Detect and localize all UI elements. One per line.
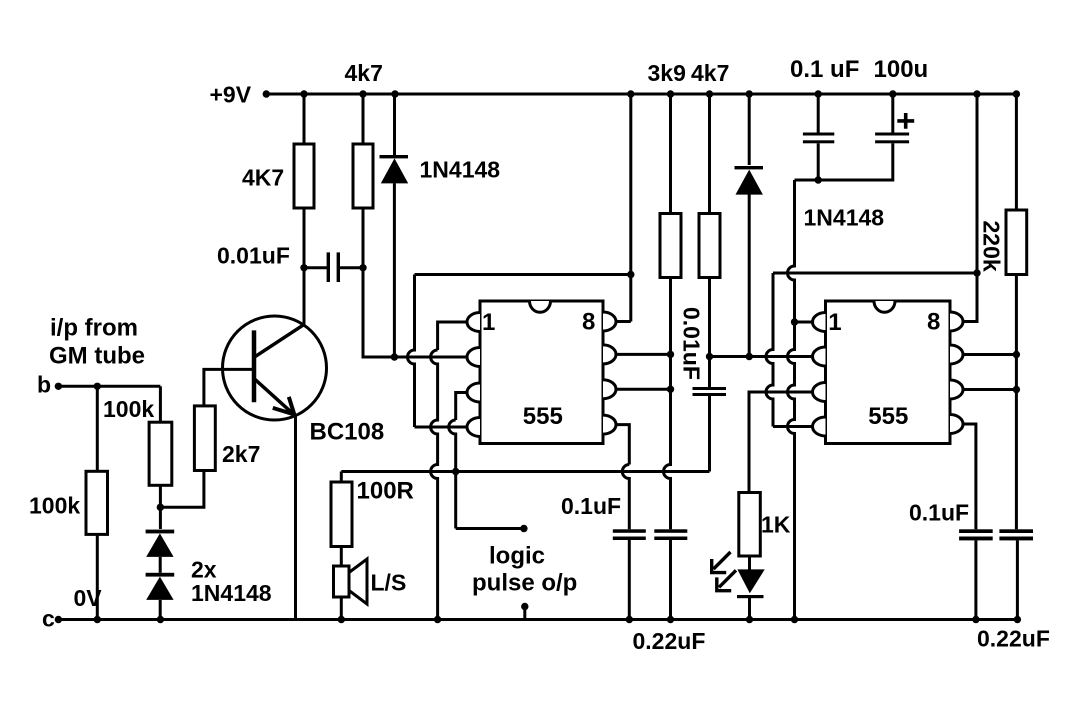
op-amp U1 pin5 bubble — [603, 415, 616, 434]
LED D5 triangle — [737, 569, 764, 593]
svg-text:2x: 2x — [191, 557, 217, 583]
resistor 1K — [739, 493, 761, 557]
diode D1 1N4148 lead from rail — [393, 94, 396, 155]
node rail0V junction x794 — [791, 616, 798, 623]
capacitor 100u C8 lead from rail — [891, 94, 894, 133]
wire U1 pin4 reset horizontal — [415, 426, 469, 429]
capacitor 0.01uF C1 right wire — [340, 266, 363, 269]
svg-text:555: 555 — [523, 403, 563, 430]
svg-text:0.1uF: 0.1uF — [909, 500, 969, 526]
svg-text:1N4148: 1N4148 — [804, 205, 885, 231]
node logic pulse o/p terminal — [520, 525, 527, 532]
op-amp U2 555 body — [826, 301, 951, 444]
node +9V terminal dot — [263, 90, 270, 97]
op-amp U2 pin2 bubble — [813, 347, 826, 366]
capacitor 0.01uF C1 left plate — [327, 252, 330, 282]
op-amp U2 pin3 bubble — [813, 383, 826, 402]
LED D5 cathode bar — [737, 595, 764, 598]
node rail junction x818 — [815, 90, 822, 97]
wire 100R to speaker — [340, 547, 343, 567]
node junction pin6/3k9 — [667, 386, 674, 393]
diode D4 1N4148 lower triangle — [146, 577, 173, 600]
diode D4 1N4148 lower cathode bar — [146, 573, 175, 577]
wire 100R top lead — [340, 472, 343, 483]
svg-text:+9V: +9V — [210, 82, 252, 108]
wire 1K to LED — [748, 556, 751, 570]
wire 100k R2 bottom lead — [159, 485, 162, 529]
node rail0V junction x976 — [972, 616, 979, 623]
wire U1 pin1 gnd vertical with hops — [431, 350, 438, 620]
node rail0V junction x1017 — [1014, 616, 1021, 623]
node junction C7/gnd link — [815, 176, 822, 183]
svg-text:GM tube: GM tube — [49, 343, 145, 370]
wire 4k7 Rc bottom lead — [708, 278, 711, 388]
svg-text:100u: 100u — [874, 56, 929, 83]
node junction pin7/3k9 — [667, 351, 674, 358]
svg-text:pulse o/p: pulse o/p — [472, 570, 577, 597]
svg-text:2k7: 2k7 — [222, 441, 260, 467]
svg-text:555: 555 — [868, 403, 908, 430]
svg-text:1: 1 — [828, 309, 841, 336]
op-amp U1 pin4 bubble — [467, 418, 480, 437]
op-amp U1 555 body — [480, 301, 603, 444]
wire C9 to 0V rail — [974, 540, 977, 619]
resistor 3k9 — [660, 214, 681, 278]
wire pin5 vertical hop to cap — [622, 465, 629, 530]
node rail0V junction x438 — [434, 616, 441, 623]
svg-text:0V: 0V — [74, 585, 103, 611]
svg-text:0.1 uF: 0.1 uF — [790, 56, 859, 83]
op-amp U1 pin3 bubble — [467, 383, 480, 402]
resistor 4k7 Rc lead from rail — [708, 94, 711, 214]
wire U1 pin8 horizontal — [615, 320, 631, 323]
wire U2 reset vertical with hops — [766, 273, 773, 427]
node rail junction x977 — [973, 90, 980, 97]
capacitor 0.1uF C9 top plate — [959, 529, 993, 533]
wire b input horizontal — [58, 385, 160, 388]
wire D1 anode down to pin2 node — [393, 183, 396, 357]
svg-text:0.01uF: 0.01uF — [217, 243, 290, 269]
node rail junction x1016 — [1013, 90, 1020, 97]
diode D2 1N4148 cathode bar — [735, 166, 764, 169]
node junction gnd/pin1 U2 — [791, 318, 798, 325]
capacitor 0.1uF C7 lead from rail — [817, 94, 820, 133]
node junction cap/4k7 — [359, 264, 366, 271]
svg-text:100R: 100R — [357, 478, 414, 505]
wire U2 pin7 horizontal — [962, 353, 1017, 356]
capacitor 0.01uF C1 left wire — [304, 266, 327, 269]
svg-text:i/p from: i/p from — [50, 315, 138, 342]
resistor 220k — [1006, 210, 1027, 275]
svg-text:100k: 100k — [29, 493, 80, 519]
svg-text:BC108: BC108 — [310, 419, 385, 446]
wire between diodes — [159, 557, 162, 573]
wire U2 pin3 to 1K — [749, 392, 814, 493]
wire U1 pin1 to ground line — [438, 322, 469, 350]
resistor 4K7 Ra lead from rail — [303, 94, 306, 144]
label + polarity C8 — [897, 113, 914, 129]
op-amp U2 notch — [874, 301, 895, 312]
capacitor 0.1uF C7 top plate — [803, 133, 834, 136]
capacitor 0.1uF C4 bottom plate — [613, 537, 646, 541]
node junction supply/pin8 — [627, 271, 634, 278]
wire 2k7 top lead to base — [204, 369, 252, 406]
wire C5 to 0V rail — [669, 540, 672, 620]
svg-text:8: 8 — [927, 309, 940, 336]
wire C8 bottom to gnd link — [795, 143, 893, 180]
wire U1 pin3 vertical with hop — [449, 420, 456, 529]
resistor 100k R1 — [86, 471, 108, 534]
resistor 100R — [331, 482, 352, 547]
wire junction to 2k7 — [160, 471, 204, 508]
node rail0V junction x97 — [94, 616, 101, 623]
resistor 4k7 Rb — [353, 144, 373, 208]
capacitor 0.1uF C4 top plate — [613, 529, 646, 533]
op-amp U2 pin6 bubble — [950, 380, 963, 399]
wire 4k7 Rb bottom lead to pin2 wire — [363, 208, 392, 357]
capacitor 0.22uF C10 top plate — [999, 529, 1033, 533]
node rail junction x670 — [667, 90, 674, 97]
capacitor 0.22uF C5 bottom plate — [654, 537, 687, 541]
node rail0V junction x749 — [746, 616, 753, 623]
diode D1 1N4148 triangle — [381, 158, 408, 183]
capacitor 0.1uF C9 bottom plate — [959, 537, 993, 541]
resistor 4k7 Rc — [699, 214, 720, 278]
node rail junction x363 — [359, 90, 366, 97]
node c terminal dot — [55, 616, 62, 623]
wire U1 +9V feed horizontal — [415, 273, 631, 276]
node rail junction x893 — [889, 90, 896, 97]
wire U1 +9V feed vertical with hop — [408, 275, 415, 428]
svg-text:100k: 100k — [103, 396, 154, 422]
capacitor 0.1uF C7 bottom plate — [803, 140, 834, 143]
op-amp U2 pin1 bubble — [813, 313, 826, 332]
svg-text:4k7: 4k7 — [691, 60, 729, 86]
wire U1 pin5 elbow — [615, 425, 630, 465]
capacitor 100u C8 top plate — [875, 133, 909, 136]
svg-text:1N4148: 1N4148 — [420, 157, 501, 183]
wire U2 supply link horizontal — [773, 272, 977, 275]
node junction pin8 supply/reset link — [973, 269, 980, 276]
svg-text:0.22uF: 0.22uF — [633, 628, 706, 654]
op-amp U2 pin8 bubble — [950, 312, 963, 331]
wire 3k9 bottom lead with hop — [664, 278, 671, 530]
wire output to 100R horizontal — [341, 470, 709, 473]
op-amp U1 pin7 bubble — [603, 345, 616, 364]
wire rail to U1 supply node — [629, 94, 632, 322]
wire D4 to 0V rail — [159, 600, 162, 620]
resistor 3k9 lead from rail — [669, 94, 672, 214]
node rail0V junction x160 — [157, 616, 164, 623]
wire U1 pin2 horizontal — [394, 356, 468, 359]
wire logic pulse o/p stub — [456, 527, 524, 530]
wire +9V top rail — [264, 93, 1019, 96]
wire U1 pin3 to output net — [456, 393, 469, 421]
svg-text:0.1uF: 0.1uF — [561, 493, 621, 519]
transistor Q1 collector diagonal — [255, 324, 304, 356]
diode D3 1N4148 upper triangle — [146, 533, 173, 557]
wire D2 anode to pin2 U2 wire — [748, 194, 751, 356]
node rail junction x749 — [746, 90, 753, 97]
node rail junction x631 — [627, 90, 634, 97]
node rail0V junction x341 — [338, 616, 345, 623]
svg-text:8: 8 — [582, 309, 595, 336]
node junction pin3/100R wire — [452, 468, 459, 475]
node junction pin7/220k — [1013, 351, 1020, 358]
node junction b/100k — [94, 383, 101, 390]
node junction diodes/2k7 — [157, 504, 164, 511]
node b terminal dot — [55, 383, 62, 390]
op-amp U2 pin7 bubble — [950, 345, 963, 364]
op-amp U1 pin8 bubble — [603, 312, 616, 331]
LED D5 arrow 1 — [711, 552, 731, 574]
resistor 100k R2 — [149, 422, 172, 485]
wire U2 pin4 horizontal — [773, 425, 814, 428]
wire logic o/p 0V stub — [523, 607, 526, 620]
op-amp U1 pin2 bubble — [467, 348, 480, 367]
wire 100k R1 top lead — [96, 386, 99, 471]
wire U2 pin6 horizontal — [962, 388, 1017, 391]
diode D2 1N4148 lead from rail — [748, 94, 751, 165]
wire U2 pin5 elbow down — [962, 424, 976, 529]
svg-text:0.22uF: 0.22uF — [977, 626, 1050, 652]
wire speaker to 0V rail — [340, 597, 343, 620]
node junction 4k7/pin2 U2 — [706, 353, 713, 360]
wire 100k R1 bottom lead — [96, 534, 99, 619]
node rail junction x709 — [706, 90, 713, 97]
wire C7 bottom lead — [817, 143, 820, 180]
node logic o/p 0V terminal — [521, 603, 528, 610]
wire 0V bottom rail — [58, 618, 1020, 621]
svg-text:b: b — [37, 372, 51, 398]
node rail junction x395 — [391, 90, 398, 97]
wire U1 pin7 horizontal — [615, 353, 671, 356]
capacitor 0.22uF C10 bottom plate — [999, 537, 1033, 541]
op-amp U2 pin5 bubble — [950, 415, 963, 434]
LED D5 arrow 2 — [716, 570, 736, 592]
wire C6 bottom to output wire — [708, 396, 711, 472]
op-amp U1 pin6 bubble — [603, 380, 616, 399]
wire U2 pin2 horizontal — [710, 355, 815, 358]
wire emitter lead down — [294, 414, 297, 620]
capacitor 0.01uF C1 right plate — [337, 252, 340, 282]
svg-text:4K7: 4K7 — [242, 165, 284, 191]
wire C10 to 0V rail — [1016, 540, 1019, 619]
svg-text:1K: 1K — [761, 512, 791, 538]
resistor 220k lead from rail — [1015, 94, 1018, 210]
wire 4K7 Ra bottom lead — [303, 208, 306, 268]
transistor Q1 base bar — [252, 330, 257, 402]
wire C4 to 0V rail — [628, 540, 631, 620]
loudspeaker L/S rectangle — [334, 566, 350, 597]
node junction pin6/220k — [1013, 386, 1020, 393]
capacitor 100u C8 bottom plate — [875, 140, 909, 143]
svg-text:1N4148: 1N4148 — [191, 580, 272, 606]
wire 100k R2 top lead — [159, 386, 162, 422]
loudspeaker L/S horn — [349, 559, 367, 604]
resistor 4K7 Ra — [294, 144, 314, 208]
svg-text:220k: 220k — [979, 221, 1005, 272]
svg-text:4k7: 4k7 — [345, 60, 383, 86]
op-amp U2 pin4 bubble — [813, 417, 826, 436]
op-amp U1 pin1 bubble — [467, 313, 480, 332]
capacitor 0.01uF C6 top plate — [693, 387, 727, 390]
svg-text:L/S: L/S — [371, 570, 407, 596]
transistor Q1 BC108 circle — [223, 316, 327, 420]
svg-text:1: 1 — [482, 309, 495, 336]
node rail junction x304 — [300, 90, 307, 97]
resistor 2k7 — [194, 406, 215, 471]
wire collector lead up — [303, 268, 306, 325]
node junction collector/cap — [300, 264, 307, 271]
wire U2 pin1 horizontal — [795, 321, 815, 324]
diode D3 1N4148 upper cathode bar — [146, 530, 175, 534]
svg-text:logic: logic — [489, 543, 545, 570]
diode D2 1N4148 triangle — [736, 170, 763, 195]
node junction D2/pin2 U2 — [746, 353, 753, 360]
svg-text:3k9: 3k9 — [648, 60, 686, 86]
transistor Q1 emitter arrowhead — [273, 397, 295, 415]
node rail0V junction x629 — [626, 616, 633, 623]
node rail0V junction x670 — [667, 616, 674, 623]
svg-text:0.01uF: 0.01uF — [679, 307, 705, 380]
wire LED to 0V rail — [748, 595, 751, 620]
wire cap gnd vertical with hops — [788, 180, 795, 620]
wire U2 pin8 to rail — [962, 94, 978, 322]
diode D1 1N4148 cathode bar — [380, 155, 409, 158]
capacitor 0.01uF C6 bottom plate — [693, 393, 727, 396]
resistor 4k7 Rb lead from rail — [362, 94, 365, 144]
capacitor 0.22uF C5 top plate — [654, 529, 687, 533]
transistor Q1 emitter diagonal — [255, 379, 294, 414]
svg-text:c: c — [42, 606, 55, 632]
op-amp U1 notch — [530, 301, 551, 312]
node junction D1/pin2 wire — [391, 353, 398, 360]
wire U1 pin6 horizontal — [615, 388, 671, 391]
wire 220k bottom lead — [1015, 275, 1018, 530]
